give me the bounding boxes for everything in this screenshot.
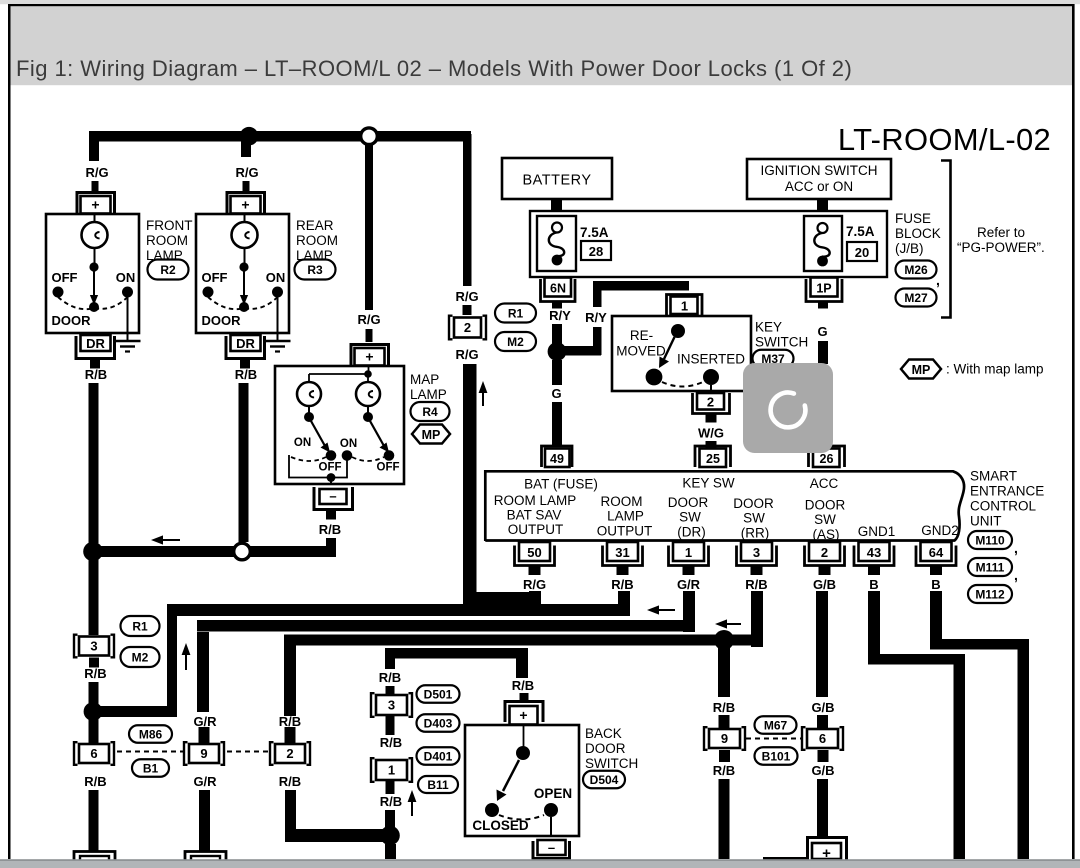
- fuse 2 (20) box: [804, 216, 842, 271]
- oval R4: [411, 402, 450, 421]
- dashed link 6 to 9: [117, 751, 183, 753]
- oval M86: [129, 725, 172, 743]
- wire stub below DR front: [90, 359, 100, 369]
- pin 26 connector: [809, 446, 845, 467]
- connector 3 (R1/M2): [74, 635, 114, 658]
- wire: map lamp R/B down to splice bar: [326, 538, 336, 557]
- svg-text:Fig 1: Wiring Diagram – LT–ROO: Fig 1: Wiring Diagram – LT–ROOM/L 02 – M…: [16, 56, 852, 81]
- wire: bus4 horizontal (door sw RR): [284, 635, 763, 646]
- svg-text:(RR): (RR): [741, 526, 770, 541]
- wire stub ignition to fuse block: [817, 199, 828, 212]
- svg-text:9: 9: [200, 746, 207, 761]
- svg-text:G/B: G/B: [813, 577, 836, 592]
- svg-text:D403: D403: [424, 716, 453, 730]
- OPEN contact dot: [544, 803, 558, 817]
- svg-text:MOVED: MOVED: [616, 344, 666, 359]
- svg-text:ROOM: ROOM: [146, 233, 188, 248]
- svg-text:ON: ON: [294, 437, 311, 449]
- key switch pin 1 connector: [667, 295, 703, 317]
- page frame left border: [8, 4, 11, 859]
- bottom connector left column (cut off): [74, 852, 115, 868]
- svg-text:R/B: R/B: [235, 367, 257, 382]
- svg-text:DOOR: DOOR: [202, 313, 242, 328]
- arrow up beside R/G feed: [479, 381, 488, 406]
- hexagon MP legend: [901, 360, 941, 379]
- svg-text:7.5A: 7.5A: [580, 225, 609, 240]
- wire stub pin 2: [819, 566, 831, 576]
- oval M37: [753, 350, 794, 368]
- oval D501: [417, 685, 460, 703]
- svg-text:IGNITION SWITCH: IGNITION SWITCH: [761, 163, 878, 178]
- wire R/Y elbow to key switch pin 1: [557, 346, 601, 356]
- wire stub pin 31: [617, 566, 629, 576]
- map lamp - connector: [314, 487, 353, 510]
- svg-text:2: 2: [464, 320, 471, 335]
- arrow left near pin 3 drop: [715, 619, 741, 628]
- svg-text:6: 6: [90, 746, 97, 761]
- svg-text:B: B: [931, 577, 940, 592]
- svg-text:,: ,: [1014, 540, 1018, 556]
- wire: bus5 left vertical: [385, 648, 395, 669]
- svg-text:ACC: ACC: [810, 476, 839, 491]
- svg-text:,: ,: [936, 272, 940, 288]
- wire stub pin 64: [930, 566, 942, 576]
- OFF contact dot front: [53, 287, 64, 298]
- open splice circle on bus: [361, 128, 378, 145]
- wire ON contact to ground front: [127, 297, 129, 341]
- CLOSED contact dot: [485, 803, 499, 817]
- svg-text:R1: R1: [132, 619, 148, 633]
- wire: lamp splice bar horizontal: [93, 546, 336, 557]
- wire stub above connector 2: [463, 305, 472, 315]
- svg-text:R/B: R/B: [380, 794, 402, 809]
- wire: rear lamp R/B down: [239, 383, 249, 542]
- svg-text:D504: D504: [590, 773, 619, 787]
- svg-text:R/Y: R/Y: [585, 310, 607, 325]
- wire: GND1 B drop: [868, 591, 880, 664]
- svg-text:2: 2: [286, 746, 293, 761]
- page frame top border: [8, 4, 1075, 6]
- wire: R/G elbow to pin 50: [463, 592, 541, 604]
- svg-text:OFF: OFF: [377, 462, 400, 474]
- contact dots map: [326, 450, 337, 461]
- svg-text:R/B: R/B: [279, 714, 301, 729]
- ground symbol rear lamp: [265, 341, 291, 352]
- svg-text:MP: MP: [422, 428, 441, 442]
- wire: middle column to junction dot: [385, 810, 395, 836]
- svg-text:BLOCK: BLOCK: [895, 226, 941, 241]
- svg-text:SW: SW: [743, 511, 765, 526]
- svg-text:6N: 6N: [550, 282, 566, 296]
- svg-text:–: –: [548, 840, 555, 855]
- connector 6 (M86/B1): [74, 742, 114, 765]
- svg-text:R/Y: R/Y: [549, 308, 571, 323]
- svg-text:–: –: [329, 489, 336, 504]
- svg-text:OPEN: OPEN: [534, 786, 572, 801]
- arrow up middle column: [408, 790, 417, 816]
- oval R1 (lower): [121, 616, 160, 636]
- svg-text:,: ,: [1014, 567, 1018, 583]
- pin 2 connector: [805, 546, 845, 566]
- oval M67: [755, 716, 797, 734]
- junction dot bottom middle: [380, 826, 400, 846]
- wire: front lamp R/B down: [89, 383, 99, 543]
- svg-text:ON: ON: [340, 438, 357, 450]
- lamp bulb rear: [244, 213, 246, 222]
- svg-text:+: +: [519, 707, 527, 723]
- svg-text:64: 64: [929, 545, 944, 560]
- svg-text:43: 43: [867, 545, 881, 560]
- pin 50 connector: [515, 546, 555, 566]
- cut-off element left of + connector: [763, 857, 807, 860]
- pin 43 connector: [854, 546, 894, 566]
- connector 9 (M86/B1): [184, 742, 224, 765]
- svg-text:1: 1: [681, 299, 688, 314]
- svg-text:+: +: [241, 197, 249, 213]
- svg-text:SWITCH: SWITCH: [585, 756, 638, 771]
- svg-text:B11: B11: [427, 778, 449, 792]
- wire stub below 6N: [552, 302, 562, 309]
- svg-text:R/G: R/G: [85, 165, 108, 180]
- svg-text:1: 1: [388, 763, 395, 778]
- svg-text:BACK: BACK: [585, 726, 622, 741]
- svg-text:D501: D501: [424, 687, 453, 701]
- svg-text:M2: M2: [132, 650, 149, 664]
- pin 25 connector: [695, 446, 731, 467]
- pivot dot rear: [239, 302, 249, 312]
- svg-text:CLOSED: CLOSED: [472, 818, 529, 833]
- svg-text:KEY SW: KEY SW: [682, 476, 735, 491]
- key switch M37 box: [612, 316, 751, 391]
- svg-text:M110: M110: [975, 533, 1005, 547]
- svg-text:MAP: MAP: [410, 372, 439, 387]
- svg-text:OFF: OFF: [202, 270, 228, 285]
- wire: pin 31 R/B drop to bus2: [618, 591, 630, 616]
- map common bar: [289, 455, 347, 478]
- svg-text:SW: SW: [814, 512, 836, 527]
- svg-text:Refer to: Refer to: [977, 225, 1025, 240]
- wire: rear lamp drop: [241, 141, 251, 157]
- wire: GND1 elbow right: [868, 654, 965, 665]
- svg-text:LT-ROOM/L-02: LT-ROOM/L-02: [838, 122, 1051, 157]
- svg-text:INSERTED: INSERTED: [677, 352, 745, 367]
- junction dot front lamp column: [83, 542, 103, 562]
- wire ON contact to ground rear: [277, 297, 279, 341]
- svg-text:ROOM LAMP: ROOM LAMP: [494, 493, 577, 508]
- svg-text:3: 3: [90, 639, 97, 654]
- svg-text:R/G: R/G: [357, 312, 380, 327]
- svg-text:ON: ON: [116, 270, 136, 285]
- svg-text:9: 9: [721, 731, 728, 746]
- fuse block outer box: [530, 211, 887, 277]
- junction dot left column: [84, 702, 103, 721]
- wire: R/B column down: [285, 790, 296, 837]
- oval D504: [583, 771, 625, 789]
- svg-text:M112: M112: [975, 587, 1005, 601]
- svg-text:B101: B101: [762, 749, 791, 763]
- svg-text:2: 2: [821, 545, 828, 560]
- oval M112: [968, 585, 1012, 603]
- pin 64 connector: [916, 546, 956, 566]
- svg-text:REAR: REAR: [296, 218, 334, 233]
- oval D403: [417, 714, 460, 732]
- svg-text:OFF: OFF: [52, 270, 78, 285]
- svg-text:G/B: G/B: [811, 763, 834, 778]
- map lamp feed tee: [368, 365, 370, 374]
- back door + connector: [505, 702, 543, 723]
- svg-text:R/B: R/B: [512, 678, 534, 693]
- svg-text:W/G: W/G: [698, 426, 724, 441]
- svg-text:FRONT: FRONT: [146, 218, 193, 233]
- fuse number box 20: [847, 242, 877, 261]
- ground symbol front lamp: [115, 341, 141, 352]
- wire stub to front lamp +: [92, 181, 99, 193]
- dashed link 9 to 2: [227, 751, 269, 753]
- wire stub below connector 1: [386, 780, 395, 794]
- svg-text:DOOR: DOOR: [52, 313, 92, 328]
- svg-text:G/R: G/R: [677, 577, 701, 592]
- page frame right border: [1072, 4, 1075, 859]
- oval M2 (lower): [121, 647, 160, 667]
- svg-text:BAT SAV: BAT SAV: [507, 508, 562, 523]
- wire: bus2 horizontal (room lamp output): [167, 604, 629, 616]
- ON contact dot front: [122, 287, 133, 298]
- ON contact dot rear: [272, 287, 283, 298]
- ignition switch box: [747, 159, 891, 199]
- svg-text:RE-: RE-: [630, 328, 653, 343]
- svg-text:ENTRANCE: ENTRANCE: [970, 484, 1044, 499]
- node dot below bulb rear: [239, 262, 248, 271]
- svg-text:28: 28: [589, 244, 603, 259]
- svg-text:R/B: R/B: [85, 367, 107, 382]
- wire: bus2 left vertical: [167, 604, 177, 714]
- wire 6N to junction dot: [552, 324, 562, 344]
- map lamp R4 box: [275, 366, 404, 484]
- map switch node dots: [308, 406, 310, 413]
- svg-text:KEY: KEY: [755, 320, 782, 335]
- connector 1P: [806, 279, 842, 302]
- svg-text:DOOR: DOOR: [733, 496, 774, 511]
- svg-text:M26: M26: [904, 263, 928, 277]
- wire: bus2 bottom horizontal into dot: [93, 706, 177, 717]
- switch arm arrow rear: [243, 271, 245, 297]
- wire: pin 1 G/R drop to bus3: [683, 591, 695, 632]
- wire stub pin 1: [683, 566, 695, 576]
- wire: R/B column elbow right: [285, 829, 385, 842]
- connector 2 (M86/B1): [270, 742, 310, 765]
- svg-text:M2: M2: [507, 335, 524, 349]
- svg-text:R/G: R/G: [455, 289, 478, 304]
- svg-text:R/B: R/B: [380, 735, 402, 750]
- wire: left column to bottom connector: [89, 790, 99, 853]
- svg-text:R4: R4: [422, 405, 438, 419]
- svg-text:7.5A: 7.5A: [846, 224, 875, 239]
- wire stub below map -: [326, 510, 336, 520]
- svg-text:(J/B): (J/B): [895, 241, 924, 256]
- svg-text:SW: SW: [679, 510, 701, 525]
- svg-text:1: 1: [685, 545, 692, 560]
- svg-text:G/B: G/B: [811, 700, 834, 715]
- OFF contact dot rear: [203, 287, 214, 298]
- oval R2: [148, 260, 189, 280]
- dashed throw arc rear: [208, 297, 278, 309]
- svg-text:M86: M86: [139, 727, 163, 741]
- lamp bulb front: [94, 213, 96, 222]
- arrow left on splice bar: [151, 535, 180, 544]
- wire: to junction dot: [89, 682, 99, 704]
- map lamp + connector: [351, 345, 389, 367]
- svg-text:BAT (FUSE): BAT (FUSE): [524, 477, 598, 492]
- wire stub between 3 and 1: [386, 715, 395, 735]
- svg-text:6: 6: [819, 731, 826, 746]
- svg-text:: With map lamp: : With map lamp: [946, 362, 1044, 377]
- key switch pin 2 connector: [693, 393, 730, 414]
- G wire segments right: [818, 302, 828, 309]
- connector 9 (M67/B101): [704, 727, 745, 750]
- svg-text:25: 25: [706, 452, 720, 466]
- node dot below bulb front: [89, 262, 98, 271]
- svg-text:ACC or ON: ACC or ON: [785, 179, 853, 194]
- svg-text:ROOM: ROOM: [296, 233, 338, 248]
- svg-text:D401: D401: [424, 749, 453, 763]
- svg-text:R/G: R/G: [455, 347, 478, 362]
- wire stub to rear lamp +: [243, 181, 250, 193]
- svg-text:R/B: R/B: [319, 522, 341, 537]
- oval M111: [968, 558, 1012, 576]
- header grey bar: [11, 4, 1073, 85]
- wire stub pin 50: [529, 566, 541, 576]
- svg-text:G: G: [817, 324, 827, 339]
- fuse 1 element: [552, 223, 562, 233]
- dashed arc back door: [499, 815, 544, 820]
- DR connector rear: [226, 336, 265, 359]
- svg-text:FUSE: FUSE: [895, 211, 931, 226]
- wire: main R/G feed vertical (bus right end down): [463, 134, 472, 286]
- wire stub battery to fuse block: [551, 199, 562, 212]
- svg-text:R/G: R/G: [523, 577, 546, 592]
- connector 6 (M67/B101): [802, 727, 843, 750]
- wire: map lamp drop: [365, 141, 373, 310]
- pin 3 connector: [737, 546, 777, 566]
- wire: bus left corner drop to front room lamp: [89, 131, 99, 161]
- wire: bus3 horizontal (door sw DR): [197, 620, 690, 632]
- svg-text:BATTERY: BATTERY: [522, 173, 591, 189]
- top strip above frame: [0, 0, 1080, 4]
- svg-text:GND2: GND2: [921, 523, 959, 538]
- svg-text:GND1: GND1: [858, 524, 896, 539]
- bottom + connector (G/B column): [808, 838, 847, 862]
- wire stub pin 43: [868, 566, 880, 576]
- wire: pin 50 R/G short drop: [529, 591, 541, 604]
- wire: GND1 vertical to bottom: [954, 654, 966, 859]
- svg-text:SMART: SMART: [970, 469, 1017, 484]
- connector 2 (R/G feed, R1/M2): [449, 316, 486, 340]
- wire: bus3 left vertical down: [197, 632, 209, 712]
- switch arm arrow front: [93, 271, 95, 297]
- rear room lamp R3 box: [196, 214, 289, 333]
- svg-text:+: +: [91, 197, 99, 213]
- svg-text:M27: M27: [904, 291, 928, 305]
- svg-text:R/G: R/G: [235, 165, 258, 180]
- svg-text:M67: M67: [764, 718, 788, 732]
- oval B11: [418, 776, 458, 793]
- pin 49 connector: [542, 446, 573, 467]
- wire stub above pin 25: [706, 441, 717, 449]
- pin 1 connector: [669, 546, 709, 566]
- svg-text:3: 3: [388, 698, 395, 713]
- wire: drop from bus4 dot to connector 9 M67: [718, 640, 730, 697]
- svg-text:DOOR: DOOR: [585, 741, 626, 756]
- junction dot on bus4: [714, 630, 734, 650]
- back door switch internals: [523, 725, 525, 747]
- wire stub below key pin 2: [706, 414, 717, 423]
- wire: bus4 left vertical down: [284, 645, 296, 716]
- svg-text:UNIT: UNIT: [970, 514, 1002, 529]
- oval B101: [755, 747, 798, 765]
- wire: left column below splice dot: [89, 558, 99, 635]
- wire: G/R column to bottom connector: [199, 790, 210, 853]
- map bulb 1: [297, 382, 321, 406]
- front room lamp + connector: [77, 193, 115, 215]
- svg-text:OUTPUT: OUTPUT: [508, 522, 564, 537]
- front room lamp R2 box: [46, 214, 139, 333]
- svg-text:B: B: [869, 577, 878, 592]
- wire stub below DR rear: [240, 359, 250, 369]
- INSERTED contact dot: [703, 369, 719, 385]
- svg-text:R3: R3: [307, 263, 323, 277]
- map switch arm 1: [311, 421, 325, 446]
- open splice circle rear lamp column: [234, 543, 251, 560]
- svg-text:R/B: R/B: [713, 700, 735, 715]
- svg-text:G: G: [551, 386, 561, 401]
- map bulb 2: [367, 377, 369, 382]
- svg-text:OFF: OFF: [319, 462, 342, 474]
- pivot dot front: [89, 302, 99, 312]
- oval M110: [968, 531, 1012, 549]
- wire: GND2 elbow right: [930, 639, 1029, 650]
- svg-text:ROOM: ROOM: [601, 494, 643, 509]
- oval B1: [132, 759, 169, 777]
- svg-text:R/B: R/B: [713, 763, 735, 778]
- svg-text:MP: MP: [912, 363, 931, 377]
- connector 6N: [541, 279, 576, 302]
- wire: GND2 B drop: [930, 591, 942, 649]
- svg-text:R/B: R/B: [379, 670, 401, 685]
- svg-text:31: 31: [615, 545, 629, 560]
- refer-to bracket: [941, 161, 951, 318]
- svg-text:DR: DR: [86, 336, 105, 351]
- oval M26: [896, 261, 937, 279]
- svg-text:DR: DR: [236, 336, 255, 351]
- smart entrance control unit box: [485, 471, 964, 541]
- svg-text:26: 26: [820, 452, 834, 466]
- svg-text:R/B: R/B: [84, 774, 106, 789]
- REMOVED contact dot: [646, 369, 663, 386]
- back door switch D504 box: [465, 725, 579, 836]
- svg-text:M111: M111: [976, 560, 1005, 574]
- svg-text:50: 50: [527, 545, 541, 560]
- svg-text:B1: B1: [143, 761, 159, 775]
- svg-text:“PG-POWER”.: “PG-POWER”.: [957, 240, 1045, 255]
- svg-text:R1: R1: [508, 306, 524, 320]
- connector 1 (D401/B11): [371, 758, 412, 782]
- svg-text:R/B: R/B: [745, 577, 767, 592]
- wire: R/B column to bottom edge: [719, 750, 730, 762]
- fuse 2 element: [818, 223, 828, 233]
- wire: G/B column to bottom + connector: [818, 750, 829, 762]
- svg-text:2: 2: [707, 395, 714, 410]
- wire stub pin 3: [751, 566, 763, 576]
